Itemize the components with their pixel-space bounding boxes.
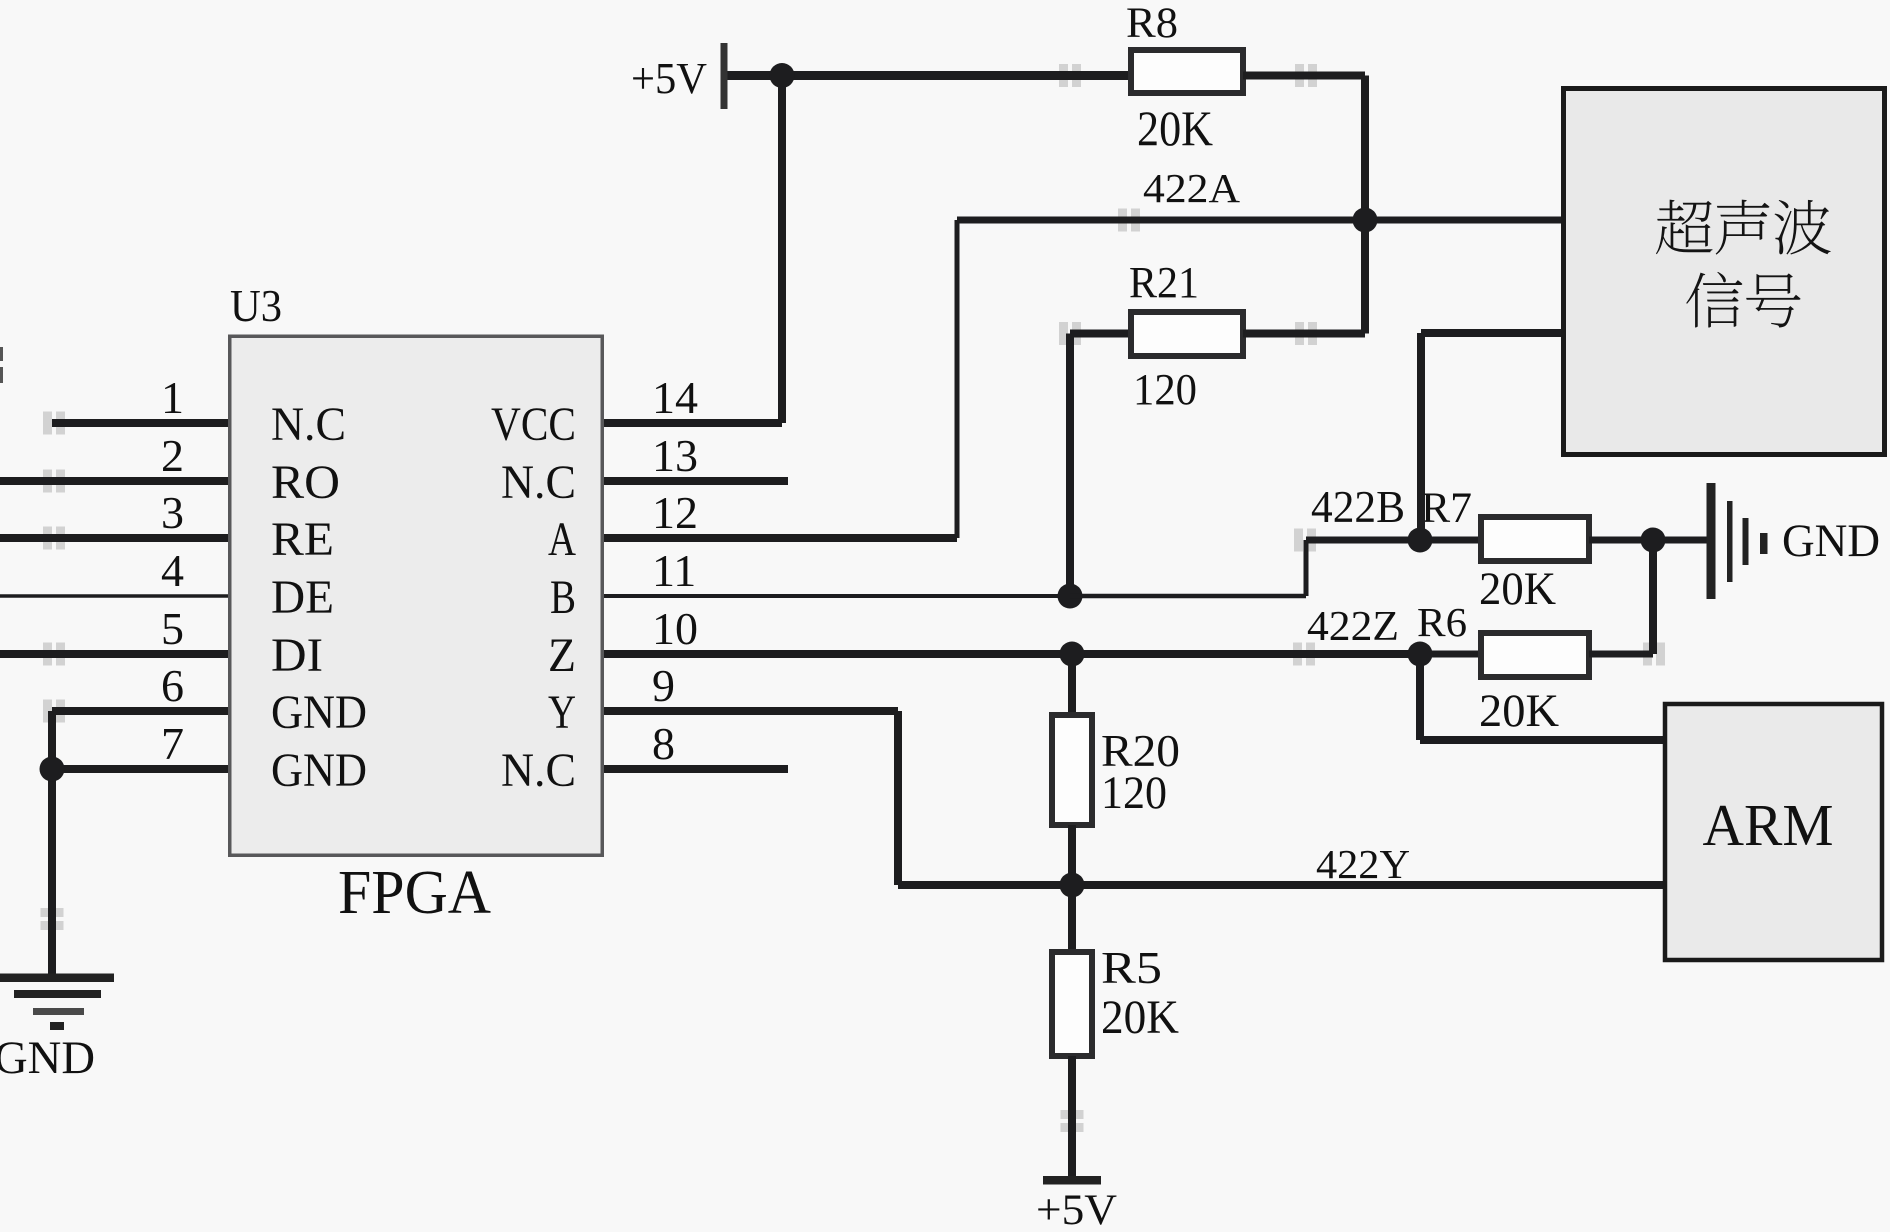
svg-text:DI: DI	[271, 629, 323, 682]
wire R7 left	[1420, 537, 1481, 544]
pin marker R5 bottom	[1061, 1110, 1084, 1119]
svg-text:20K: 20K	[1137, 100, 1213, 156]
wire box lower pin vertical	[1417, 333, 1425, 540]
svg-text:2: 2	[161, 430, 184, 481]
wire VCC pin14 vertical	[778, 76, 786, 424]
wire pin7	[52, 765, 228, 773]
wire R8 right	[1243, 72, 1365, 80]
svg-text:R8: R8	[1126, 0, 1178, 47]
ground symbol bar3	[33, 1008, 84, 1015]
label ultrasonic line1 (chao sheng bo)	[1656, 200, 1831, 255]
svg-text:8: 8	[652, 718, 675, 769]
junction 422B/R7	[1408, 528, 1433, 553]
wire pin12 A vertical	[955, 220, 960, 538]
wire pin4 (thin)	[0, 594, 228, 598]
wire R21 to node B vertical	[1066, 334, 1074, 597]
pin marker R8 right	[1295, 64, 1304, 87]
pin marker R8 left	[1059, 64, 1068, 87]
wire +5V rail to R8	[728, 71, 1132, 80]
svg-text:VCC: VCC	[491, 398, 576, 451]
svg-text:R6: R6	[1417, 599, 1467, 645]
resistor R7	[1481, 517, 1589, 561]
ground GND right bar4	[1760, 533, 1768, 554]
svg-text:20K: 20K	[1479, 563, 1556, 615]
wire pin6/7 to ground vertical	[48, 711, 56, 974]
svg-text:+5V: +5V	[631, 54, 707, 103]
svg-text:R5: R5	[1101, 943, 1162, 993]
clipped mark left edge	[0, 347, 3, 361]
wire box lower pin horizontal	[1421, 329, 1561, 337]
svg-text:13: 13	[652, 430, 698, 481]
svg-text:N.C: N.C	[271, 398, 346, 451]
wire pin12 A	[604, 534, 957, 542]
wire node B to corner (thin)	[1070, 594, 1306, 599]
svg-text:1: 1	[161, 372, 184, 423]
wire pin1	[52, 419, 228, 427]
pin marker ground vertical	[41, 908, 64, 917]
wire R21 right	[1243, 330, 1365, 338]
svg-text:11: 11	[652, 545, 696, 596]
svg-text:R7: R7	[1421, 485, 1472, 532]
svg-text:10: 10	[652, 603, 698, 654]
svg-text:20K: 20K	[1479, 685, 1559, 737]
pin marker pin1	[43, 412, 52, 435]
junction pin7 ground	[40, 757, 65, 782]
wire R20 to 422Y	[1068, 825, 1076, 885]
wire 422A horizontal	[957, 217, 1563, 224]
wire pin3	[0, 534, 228, 542]
svg-text:5: 5	[161, 603, 184, 654]
resistor R21	[1131, 312, 1243, 356]
svg-text:120: 120	[1133, 365, 1197, 414]
wire pin2	[0, 477, 228, 485]
ground symbol bar2	[14, 990, 101, 998]
svg-text:N.C: N.C	[501, 456, 576, 509]
wire 422B horizontal	[1306, 537, 1420, 544]
ground GND right bar3	[1743, 518, 1749, 565]
wire 422Y to R5	[1068, 885, 1076, 952]
wire pin9 Y	[604, 707, 898, 715]
pin marker 422B	[1294, 529, 1303, 552]
pin marker 422A	[1118, 209, 1127, 232]
svg-text:Y: Y	[548, 686, 576, 739]
pin marker R21 left	[1059, 322, 1068, 345]
svg-text:120: 120	[1101, 767, 1167, 819]
svg-text:3: 3	[161, 487, 184, 538]
wire R21 left	[1070, 330, 1131, 338]
svg-text:422A: 422A	[1143, 165, 1240, 211]
wire 422B corner vertical	[1304, 540, 1309, 596]
svg-text:6: 6	[161, 660, 184, 711]
svg-text:Z: Z	[548, 629, 576, 682]
wire 422Z to ARM vertical	[1416, 654, 1424, 740]
wire R5 to +5V	[1068, 1056, 1076, 1180]
pin marker pin3	[43, 527, 52, 550]
junction R7/GND	[1641, 528, 1666, 553]
svg-text:GND: GND	[1782, 515, 1880, 567]
svg-text:A: A	[548, 513, 576, 566]
svg-text:RE: RE	[271, 513, 334, 566]
junction Z/R20	[1060, 642, 1085, 667]
svg-text:20K: 20K	[1101, 991, 1179, 1044]
svg-text:RO: RO	[271, 456, 340, 509]
svg-text:DE: DE	[271, 571, 334, 624]
wire Z to R20	[1068, 654, 1076, 715]
wire R7 right	[1589, 537, 1655, 544]
wire R7 junction to R6 vertical	[1649, 540, 1657, 654]
pin marker pin5	[43, 643, 52, 666]
wire 422Y horizontal	[898, 881, 1665, 889]
junction 422Y	[1060, 873, 1085, 898]
ground symbol bar4	[50, 1022, 64, 1030]
pin marker Z	[1293, 643, 1302, 666]
chip U3 body	[230, 336, 603, 855]
svg-text:9: 9	[652, 660, 675, 711]
power +5V top bar symbol	[721, 43, 728, 109]
block ultrasonic signal body	[1564, 89, 1885, 455]
wire to GND symbol	[1653, 537, 1707, 544]
svg-text:B: B	[550, 571, 576, 624]
wire Y corner vertical	[894, 711, 902, 885]
wire pin14 VCC	[604, 419, 782, 427]
wire pin5	[0, 650, 228, 658]
ground GND right bar1	[1707, 483, 1716, 599]
svg-text:GND: GND	[0, 1032, 95, 1084]
junction B/R21	[1058, 584, 1083, 609]
junction 422A	[1353, 208, 1378, 233]
label ultrasonic line2 (xin hao)	[1686, 272, 1800, 328]
wire pin8 stub	[604, 765, 788, 773]
svg-text:R21: R21	[1129, 258, 1199, 307]
resistor R20	[1052, 715, 1092, 825]
junction 422Z/R6	[1408, 642, 1433, 667]
junction +5V/VCC	[770, 63, 795, 88]
ground GND right bar2	[1727, 501, 1733, 582]
wire pin11 B (thin)	[604, 594, 1070, 598]
wire pin10 Z	[604, 650, 1420, 658]
svg-text:7: 7	[161, 718, 184, 769]
wire pin6	[52, 707, 228, 715]
wire 422Z to ARM horizontal	[1420, 736, 1665, 744]
wire 422A vertical drop	[1361, 76, 1369, 334]
block ARM body	[1665, 704, 1882, 960]
svg-text:N.C: N.C	[501, 744, 576, 797]
svg-text:14: 14	[652, 372, 698, 423]
wire R6 left	[1420, 651, 1481, 658]
svg-text:422B: 422B	[1311, 482, 1405, 532]
svg-text:FPGA: FPGA	[338, 859, 491, 927]
svg-text:422Z: 422Z	[1307, 604, 1399, 650]
ground symbol bar1	[0, 974, 114, 983]
resistor R5	[1052, 952, 1092, 1056]
pin marker R6 right	[1643, 643, 1652, 666]
svg-text:ARM: ARM	[1703, 792, 1834, 858]
pin marker pin2	[43, 470, 52, 493]
svg-text:12: 12	[652, 487, 698, 538]
svg-text:+5V: +5V	[1036, 1187, 1117, 1232]
wire R6 right	[1589, 651, 1653, 658]
pin marker R21 right	[1295, 322, 1304, 345]
resistor R8	[1131, 50, 1243, 93]
svg-text:4: 4	[161, 545, 184, 596]
svg-text:U3: U3	[230, 280, 282, 331]
svg-text:GND: GND	[271, 686, 367, 739]
wire pin13 stub	[604, 477, 788, 485]
svg-text:422Y: 422Y	[1316, 841, 1410, 887]
pin marker pin6	[43, 700, 52, 723]
svg-text:GND: GND	[271, 744, 367, 797]
resistor R6	[1481, 633, 1589, 677]
power +5V bottom bar	[1043, 1176, 1101, 1185]
